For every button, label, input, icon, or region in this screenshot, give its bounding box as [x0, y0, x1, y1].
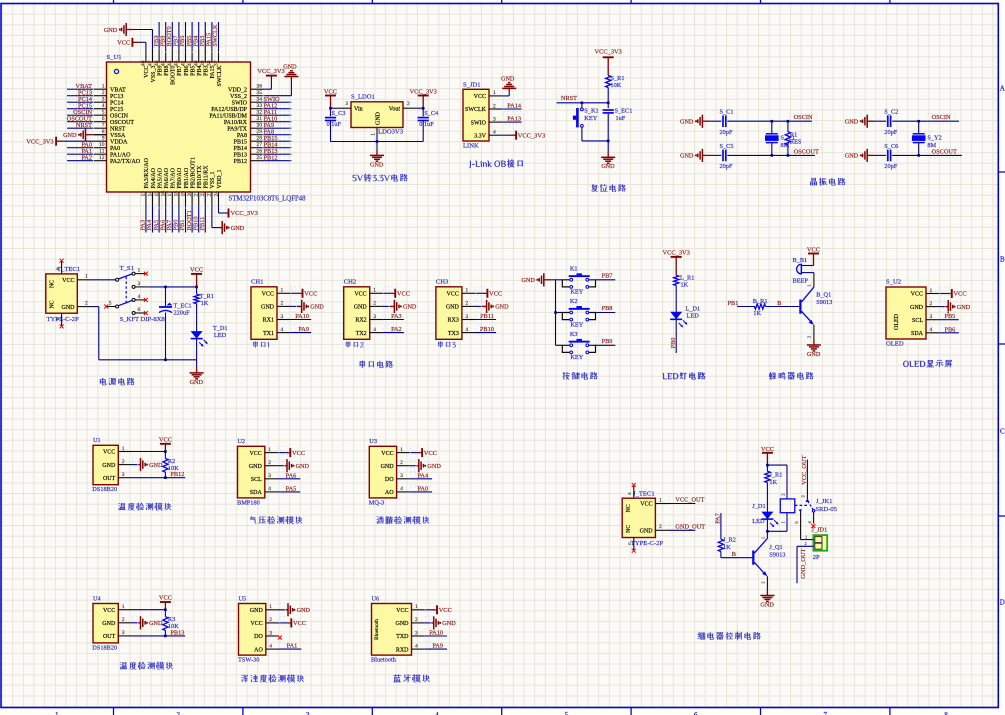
power VCC_3V3 at LDO output — [410, 89, 437, 109]
svg-text:VCC: VCC — [103, 450, 115, 456]
svg-text:AO: AO — [254, 647, 263, 653]
svg-text:PA13: PA13 — [507, 116, 521, 123]
wire net labels right of MCU — [263, 95, 291, 163]
power VCC above MCU — [117, 38, 146, 49]
svg-text:TX1: TX1 — [263, 331, 274, 337]
wire net PA2 — [383, 325, 404, 333]
wire net PA4 — [410, 471, 432, 479]
svg-text:GND: GND — [640, 529, 654, 535]
ground left of S_C5 — [680, 149, 710, 162]
svg-text:16: 16 — [161, 191, 167, 197]
capacitor S_C4 0.1uF — [418, 108, 439, 141]
svg-text:PA4/AO: PA4/AO — [151, 167, 157, 188]
svg-text:GND: GND — [102, 621, 116, 627]
svg-text:GND: GND — [910, 305, 924, 311]
svg-text:OSCIN: OSCIN — [932, 114, 951, 121]
svg-text:34: 34 — [256, 97, 262, 103]
U3 pin 2 GND — [381, 460, 410, 470]
net label OSCIN — [790, 114, 818, 124]
svg-text:1K: 1K — [753, 310, 761, 317]
power VCC relay — [761, 446, 774, 465]
caption reset circuit — [591, 184, 626, 192]
svg-text:GND: GND — [845, 153, 859, 160]
svg-text:PB14: PB14 — [234, 146, 247, 152]
led L_D1 — [670, 306, 700, 328]
CH1 pin 1 VCC — [262, 288, 291, 298]
wire TEC1 GND down rail — [91, 307, 197, 367]
svg-text:RXD: RXD — [396, 647, 409, 653]
svg-text:OSCIN: OSCIN — [110, 113, 129, 119]
TEC1 pin GND — [62, 301, 91, 311]
svg-text:KEY: KEY — [570, 321, 583, 328]
svg-text:GND: GND — [845, 119, 859, 126]
power VCC power-circuit — [190, 267, 203, 287]
svg-text:VCC: VCC — [354, 292, 366, 298]
svg-text:0.1uF: 0.1uF — [327, 121, 342, 128]
wire net PA6 — [278, 471, 300, 479]
svg-text:K1: K1 — [570, 265, 578, 272]
wire JD1 pin1 to GND — [502, 91, 509, 96]
svg-text:GND: GND — [250, 608, 264, 614]
svg-text:NRST: NRST — [561, 95, 577, 102]
svg-text:GND: GND — [403, 304, 417, 311]
wire net PB13 — [132, 629, 186, 637]
connector U3 body — [369, 438, 397, 506]
svg-text:VCC: VCC — [250, 621, 262, 627]
net label OSCOUT — [790, 148, 823, 158]
svg-text:20pF: 20pF — [720, 129, 733, 136]
svg-text:PA12/USB/DP: PA12/USB/DP — [211, 107, 247, 113]
svg-text:7: 7 — [823, 711, 827, 715]
svg-text:1: 1 — [373, 288, 376, 294]
U4 pin 2 GND — [102, 617, 131, 627]
svg-text:PA6/AO: PA6/AO — [164, 167, 170, 188]
svg-text:PB1/AO: PB1/AO — [184, 167, 190, 188]
CH2 pin 3 RX2 — [355, 314, 383, 324]
svg-text:PA3/RX/AO: PA3/RX/AO — [144, 157, 150, 188]
svg-text:VDDA: VDDA — [110, 139, 128, 145]
svg-text:S_EC1: S_EC1 — [615, 107, 633, 114]
svg-text:OLED: OLED — [886, 341, 904, 348]
CH3 pin 1 VCC — [447, 288, 476, 298]
svg-text:J_R1: J_R1 — [769, 472, 782, 479]
svg-text:3: 3 — [122, 472, 125, 478]
svg-text:OUT: OUT — [103, 634, 116, 640]
svg-text:PA7/AO: PA7/AO — [171, 167, 177, 188]
wire OSCIN — [892, 120, 959, 122]
svg-text:PB2/BOOT1: PB2/BOOT1 — [190, 157, 196, 188]
svg-text:J_R2: J_R2 — [723, 537, 736, 544]
svg-text:GND: GND — [442, 620, 456, 627]
svg-text:VCC_3V3: VCC_3V3 — [26, 138, 53, 145]
svg-text:NC: NC — [626, 525, 632, 533]
svg-text:PB0/AO: PB0/AO — [177, 167, 183, 188]
svg-text:GND: GND — [446, 305, 460, 311]
wire reset bottom — [582, 140, 610, 151]
wire net PB8 — [596, 304, 616, 312]
svg-text:SWCLK: SWCLK — [212, 24, 219, 46]
svg-text:VCC: VCC — [954, 291, 967, 298]
svg-text:BEEP: BEEP — [793, 277, 809, 284]
svg-text:MQ-3: MQ-3 — [369, 499, 384, 506]
svg-text:PB7: PB7 — [602, 273, 613, 280]
svg-text:SRD-05: SRD-05 — [815, 506, 837, 513]
svg-text:VCC: VCC — [159, 437, 172, 444]
U3 pin 3 DO — [385, 473, 410, 483]
svg-text:23: 23 — [207, 191, 213, 197]
svg-text:11: 11 — [99, 149, 105, 155]
ground CH3 — [475, 300, 509, 313]
svg-text:U2: U2 — [238, 438, 246, 445]
svg-text:PA7: PA7 — [715, 513, 722, 524]
svg-text:VCC: VCC — [439, 607, 452, 614]
ground above MCU — [104, 23, 153, 49]
svg-text:Vin: Vin — [354, 106, 363, 112]
svg-text:GND: GND — [261, 305, 275, 311]
svg-text:VCC: VCC — [292, 450, 305, 457]
svg-text:GND: GND — [249, 464, 263, 470]
svg-text:PA11/USB/DM: PA11/USB/DM — [209, 113, 247, 119]
capacitor T_EC1 220uF — [159, 287, 192, 360]
designator S_LDO1 — [351, 94, 375, 101]
resistor B_R1 1K — [753, 298, 768, 317]
svg-text:4: 4 — [435, 711, 439, 715]
wire OSCIN — [727, 120, 812, 122]
svg-text:PC14: PC14 — [110, 100, 123, 106]
wire net B relay — [721, 551, 752, 558]
U5 pin 1 GND — [250, 604, 279, 614]
svg-text:2: 2 — [659, 524, 662, 530]
svg-text:VCC: VCC — [304, 291, 317, 298]
wire net PA5 — [278, 484, 300, 492]
caption LED circuit — [662, 372, 705, 379]
svg-text:TX2: TX2 — [356, 331, 367, 337]
MCU bottom pins 13-24 — [141, 157, 223, 205]
svg-text:PA14: PA14 — [507, 103, 522, 110]
caption J-Link OB port — [469, 159, 523, 168]
CH3 pin 2 GND — [446, 301, 475, 311]
svg-text:TYPE-C-2P: TYPE-C-2P — [631, 540, 664, 547]
svg-text:VCC: VCC — [249, 451, 261, 457]
svg-text:GND: GND — [149, 620, 163, 627]
capacitor S_C1 20pF — [710, 109, 734, 136]
svg-text:29: 29 — [256, 129, 262, 135]
CH1 pin 2 GND — [261, 301, 290, 311]
buzzer B_B1 BEEP — [793, 257, 814, 284]
wire net PA3 — [383, 312, 404, 320]
wire net GND_OUT — [669, 523, 706, 531]
svg-text:VSS_1: VSS_1 — [210, 171, 216, 188]
J_TEC1 pin VCC — [640, 497, 668, 507]
power VCC_3V3 reset — [595, 49, 622, 76]
svg-text:PB6: PB6 — [944, 326, 955, 333]
MCU right pins 25-36 — [209, 84, 264, 165]
svg-text:RX1: RX1 — [263, 318, 274, 324]
svg-text:TSW-30: TSW-30 — [238, 657, 259, 664]
svg-text:VCC_3V3: VCC_3V3 — [410, 89, 437, 96]
connector J_TEC1 body — [622, 498, 655, 537]
svg-text:5: 5 — [565, 711, 569, 715]
svg-text:J_JK1: J_JK1 — [816, 498, 833, 505]
wire LDO bottom rail — [331, 135, 424, 149]
pin-1 marker circle — [114, 69, 118, 73]
svg-text:VCC: VCC — [159, 595, 172, 602]
wire MCU pin35 to GND — [264, 80, 291, 96]
LDO pin Vin — [338, 101, 363, 112]
svg-text:3: 3 — [269, 630, 272, 636]
wire net PA10 — [425, 629, 447, 637]
designator J_JD1 — [812, 527, 828, 534]
connector CH1 body — [251, 279, 277, 340]
svg-text:PA5: PA5 — [286, 485, 297, 492]
svg-text:GND: GND — [62, 305, 76, 311]
wire VCC split — [766, 464, 787, 499]
ground below MCU — [220, 221, 245, 234]
wire net PA14 — [502, 101, 522, 111]
power VCC OLED — [939, 287, 966, 298]
resistor R2 10K — [163, 450, 179, 478]
ground U3 — [410, 459, 442, 472]
svg-text:VCC: VCC — [190, 267, 203, 274]
wire net PA7 — [715, 513, 722, 539]
svg-text:1K: 1K — [681, 281, 689, 288]
svg-text:46: 46 — [154, 60, 160, 66]
svg-text:DS18B20: DS18B20 — [92, 486, 117, 493]
caption relay control circuit — [697, 632, 760, 641]
svg-text:27: 27 — [256, 142, 262, 148]
svg-text:SWIO: SWIO — [232, 100, 248, 106]
svg-text:1K: 1K — [769, 479, 777, 486]
svg-text:VCC: VCC — [117, 40, 130, 47]
svg-text:5: 5 — [102, 110, 105, 116]
resistor S_R1 10K — [606, 75, 625, 103]
svg-text:PA9/TX: PA9/TX — [227, 126, 247, 132]
CH2 pin 2 GND — [354, 301, 383, 311]
svg-text:3: 3 — [415, 630, 418, 636]
svg-text:18: 18 — [174, 191, 180, 197]
connector CH3 body — [436, 279, 462, 340]
wire net B to base — [766, 300, 800, 307]
svg-text:2: 2 — [930, 301, 933, 307]
svg-text:PB11: PB11 — [480, 313, 494, 320]
svg-text:VCC: VCC — [144, 66, 150, 78]
svg-text:S_C4: S_C4 — [424, 110, 439, 117]
svg-text:45: 45 — [161, 60, 167, 66]
svg-text:PA10: PA10 — [295, 313, 309, 320]
svg-text:S_U1: S_U1 — [107, 54, 122, 61]
svg-text:KEY: KEY — [570, 354, 583, 361]
svg-text:1: 1 — [400, 447, 403, 453]
wire net PA9 — [290, 325, 311, 333]
connector U4 body — [92, 595, 118, 651]
svg-text:8: 8 — [944, 711, 948, 715]
svg-text:26: 26 — [256, 149, 262, 155]
ground OLED — [939, 300, 971, 313]
svg-text:4: 4 — [102, 103, 105, 109]
svg-text:22: 22 — [200, 191, 206, 197]
caption 温度检测模块 — [118, 503, 171, 511]
svg-text:T_D1: T_D1 — [213, 325, 228, 332]
svg-text:GND: GND — [495, 304, 509, 311]
caption 蓝牙模块 — [393, 674, 429, 682]
svg-text:1: 1 — [122, 604, 125, 610]
svg-text:4: 4 — [930, 327, 933, 333]
svg-text:2: 2 — [465, 301, 468, 307]
svg-text:PA0: PA0 — [110, 146, 120, 152]
svg-text:GND: GND — [297, 607, 311, 614]
svg-text:L_D1: L_D1 — [685, 306, 700, 313]
svg-text:3: 3 — [306, 711, 310, 715]
svg-text:BOOT0: BOOT0 — [171, 66, 177, 85]
svg-text:AO: AO — [385, 490, 394, 496]
svg-text:4: 4 — [269, 643, 272, 649]
svg-text:K3: K3 — [570, 331, 578, 338]
svg-text:SCL: SCL — [912, 318, 923, 324]
svg-text:1: 1 — [85, 274, 88, 280]
caption 温度检测模块 — [120, 662, 173, 670]
power VCC at LDO input — [324, 89, 337, 109]
svg-text:GND: GND — [680, 153, 694, 160]
power VCC U5 — [279, 616, 306, 627]
svg-text:2: 2 — [493, 103, 496, 109]
svg-text:41: 41 — [187, 60, 193, 66]
power VCC_3V3 at MCU pin 9 VDDA — [26, 137, 93, 146]
U2 pin 1 VCC — [249, 447, 278, 457]
TEC1 bottom stub no-connect — [55, 313, 64, 328]
svg-text:GND: GND — [680, 119, 694, 126]
U4 pin 1 VCC — [103, 604, 132, 614]
svg-text:SDA: SDA — [911, 331, 924, 337]
MCU S_U1 body STM32F103C8T6 — [107, 62, 251, 192]
svg-text:PB1: PB1 — [728, 300, 739, 307]
wire net PB10 — [475, 325, 496, 333]
net label OSCOUT — [928, 148, 961, 158]
wire net labels below MCU — [140, 205, 212, 232]
svg-text:CH2: CH2 — [344, 279, 356, 286]
connector CH2 body — [344, 279, 370, 340]
svg-text:2: 2 — [400, 460, 403, 466]
svg-text:SDA: SDA — [250, 490, 263, 496]
svg-text:SCL: SCL — [251, 477, 262, 483]
connector S_U2 OLED body — [886, 279, 926, 340]
caption buzzer circuit — [769, 372, 813, 380]
svg-text:SWCLK: SWCLK — [465, 107, 487, 113]
ground U2 — [278, 459, 310, 472]
wire net PB6 — [939, 325, 959, 334]
svg-text:GND: GND — [396, 621, 410, 627]
caption key circuit — [563, 372, 598, 380]
svg-text:PA3: PA3 — [391, 313, 402, 320]
svg-text:S_JD1: S_JD1 — [463, 81, 481, 88]
svg-text:VCC: VCC — [424, 450, 437, 457]
caption serial circuit — [360, 361, 393, 368]
svg-text:GND: GND — [102, 463, 116, 469]
svg-text:B_B1: B_B1 — [793, 257, 808, 264]
svg-text:PA2: PA2 — [391, 326, 402, 333]
svg-text:1: 1 — [269, 604, 272, 610]
svg-text:VDD_1: VDD_1 — [217, 170, 223, 189]
CH2 pin 1 VCC — [354, 288, 383, 298]
U5 pin DO no-connect — [278, 636, 282, 640]
svg-text:GND: GND — [354, 305, 368, 311]
wire net PA9 — [425, 642, 447, 650]
svg-text:VCC: VCC — [103, 608, 115, 614]
svg-text:6: 6 — [138, 307, 141, 313]
svg-text:GND: GND — [381, 464, 395, 470]
svg-text:CH3: CH3 — [436, 279, 449, 286]
transistor J_Q1 S9013 — [752, 531, 785, 589]
U1 pin 3 OUT — [103, 472, 132, 482]
power VCC U2 — [278, 446, 305, 457]
caption 串口2 — [346, 341, 364, 347]
connector T_TEC1 body — [46, 274, 78, 313]
svg-text:VCC: VCC — [293, 620, 306, 627]
led J_D1 — [752, 503, 778, 533]
svg-text:4: 4 — [493, 130, 496, 136]
caption 串口3 — [438, 341, 456, 347]
svg-text:PB12: PB12 — [170, 471, 184, 478]
svg-text:PA4: PA4 — [417, 472, 428, 479]
svg-text:3: 3 — [138, 281, 141, 287]
caption crystal circuit — [810, 178, 845, 186]
connector U6 body — [371, 595, 412, 663]
comment OLED — [886, 341, 904, 348]
svg-text:1uF: 1uF — [616, 115, 626, 122]
wire MCU pin36 to VCC_3V3 — [264, 76, 271, 90]
power VCC buzzer — [807, 247, 820, 266]
svg-text:2: 2 — [281, 301, 284, 307]
svg-text:PB8: PB8 — [602, 305, 613, 312]
power VCC U1 — [159, 437, 172, 452]
svg-text:VCC: VCC — [911, 292, 923, 298]
wire MCU pin23 to GND — [212, 205, 220, 227]
svg-text:9: 9 — [102, 136, 105, 142]
comment LINK — [463, 143, 479, 150]
svg-text:VCC: VCC — [397, 291, 410, 298]
svg-text:NC: NC — [50, 280, 56, 288]
svg-text:B: B — [777, 300, 781, 307]
svg-text:3: 3 — [345, 101, 348, 107]
svg-text:43: 43 — [174, 60, 180, 66]
svg-text:10: 10 — [99, 142, 105, 148]
svg-text:R3: R3 — [168, 616, 175, 623]
svg-text:3: 3 — [281, 314, 284, 320]
svg-text:OLED: OLED — [894, 313, 900, 330]
ground CH2 — [383, 300, 417, 313]
svg-text:13: 13 — [141, 191, 147, 197]
ground U5 — [279, 603, 311, 616]
wire key trunk — [554, 280, 562, 346]
MCU top pins 37-48 — [141, 49, 223, 87]
svg-text:PB0: PB0 — [670, 338, 677, 349]
svg-text:PB11: PB11 — [199, 217, 206, 231]
regulator U LDO body — [351, 102, 403, 128]
comment S_KFT DIP-8X8 — [120, 316, 166, 323]
svg-text:GND: GND — [310, 304, 324, 311]
svg-text:PB10: PB10 — [480, 326, 494, 333]
U4 pin 3 OUT — [103, 630, 132, 640]
svg-text:PB13: PB13 — [234, 152, 247, 158]
wire OSCOUT — [727, 154, 815, 156]
svg-text:0.1uF: 0.1uF — [419, 121, 434, 128]
J_TEC1 pin GND — [640, 524, 669, 534]
ground power-circuit — [190, 366, 204, 385]
J-Link pins 1-4 — [465, 90, 502, 139]
svg-text:R1: R1 — [790, 131, 797, 138]
svg-text:4: 4 — [138, 294, 141, 300]
caption 浑浊度检测模块 — [241, 674, 303, 682]
svg-text:OSCOUT: OSCOUT — [932, 148, 957, 155]
